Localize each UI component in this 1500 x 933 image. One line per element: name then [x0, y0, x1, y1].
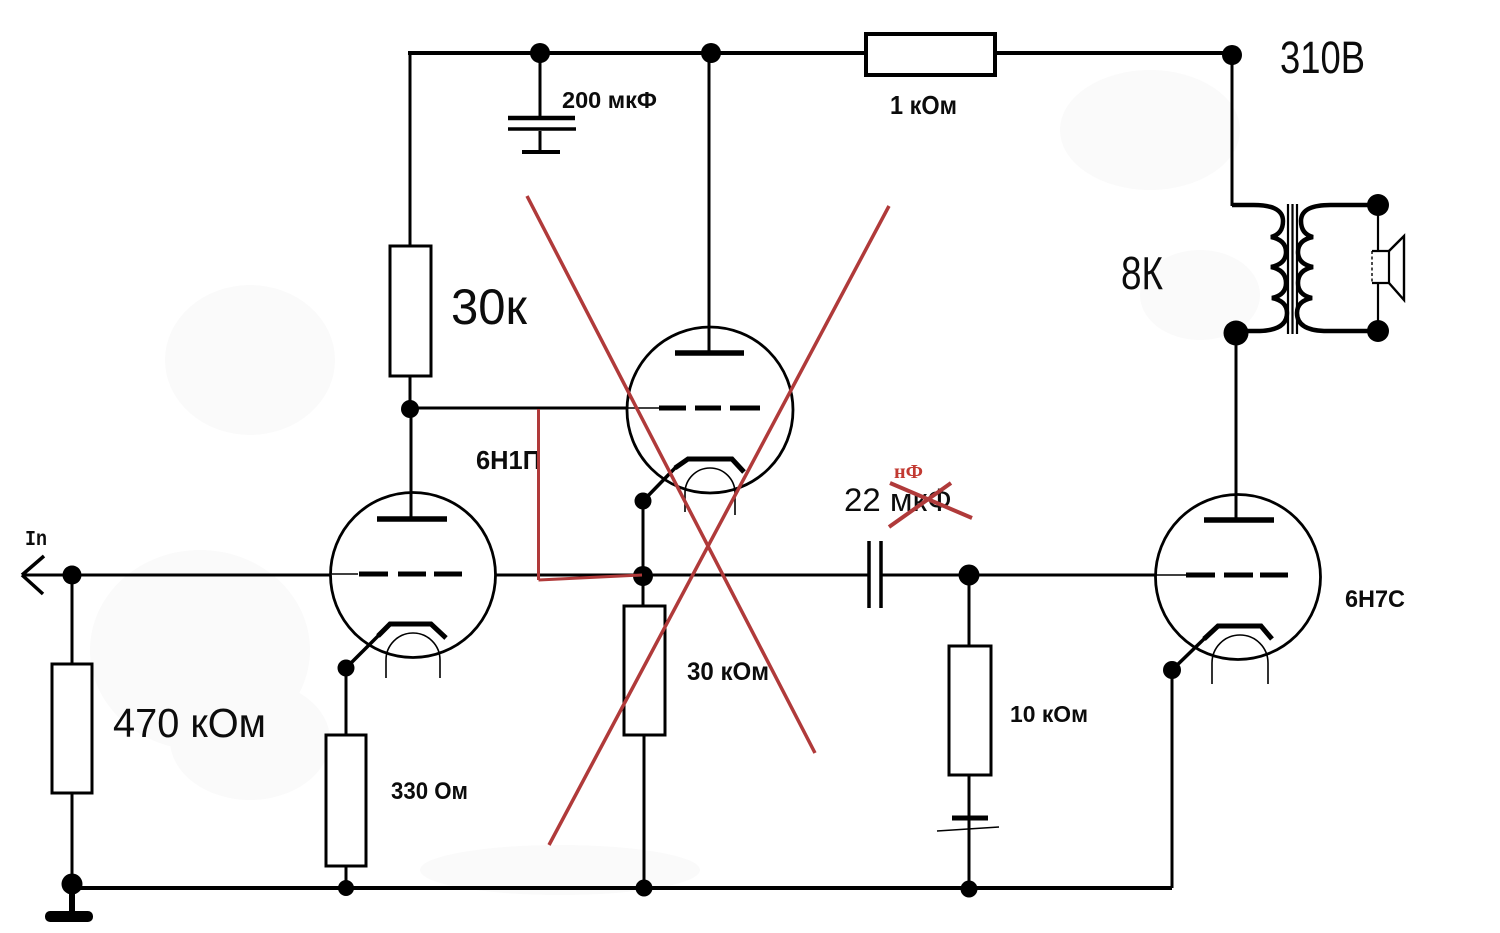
- wire left drop from top rail to 30k: [409, 51, 412, 246]
- cathode V3: [1204, 626, 1272, 639]
- wire speaker bottom lead: [1377, 283, 1379, 331]
- transformer T1 secondary winding: [1297, 205, 1378, 331]
- heater V1: [386, 633, 440, 678]
- wire V2 cathode node down through grid bus: [642, 501, 645, 606]
- wire V3 cathode diagonal: [1172, 638, 1205, 670]
- wire In arrow: [22, 556, 331, 594]
- wire top rail right segment: [995, 51, 1233, 55]
- capacitor C2 coupling plates: [869, 541, 881, 608]
- red cross line 1: [527, 196, 815, 753]
- node junction V3 cathode: [1163, 661, 1181, 679]
- grid V2 dashed: [628, 407, 760, 409]
- svg-text:6Н1П: 6Н1П: [476, 445, 541, 475]
- svg-text:In: In: [25, 529, 47, 552]
- resistor R3 470 kOhm: [52, 664, 92, 793]
- node junction grid bus / cathode: [633, 566, 653, 586]
- svg-text:200 мкФ: 200 мкФ: [562, 87, 657, 113]
- svg-text:8К: 8К: [1121, 247, 1163, 299]
- svg-text:310В: 310В: [1280, 32, 1365, 83]
- resistor R6 10 kOhm: [949, 646, 991, 775]
- node junction input: [63, 566, 82, 585]
- wire V2 anode lead: [708, 53, 711, 353]
- wire R4 bottom to rail: [345, 866, 348, 888]
- svg-text:330 Ом: 330 Ом: [391, 778, 468, 805]
- wire input node down to R3: [71, 575, 74, 664]
- resistor R4 330 Ohm: [326, 735, 366, 866]
- svg-text:6Н7С: 6Н7С: [1345, 586, 1405, 613]
- wire speaker top lead: [1377, 205, 1379, 252]
- wire top rail left segment: [408, 51, 866, 55]
- grid V3 dashed: [1156, 574, 1288, 576]
- transformer T1 core: [1288, 204, 1297, 334]
- tube V2 center triode envelope: [627, 327, 793, 493]
- anode V2: [675, 350, 744, 356]
- watermark smudges: [90, 70, 1260, 895]
- node junction top rail right end: [1222, 45, 1242, 65]
- wire capacitor C1 lead: [539, 53, 542, 116]
- wire V1 cathode to node: [346, 635, 379, 668]
- svg-text:нФ: нФ: [894, 461, 923, 483]
- wire node to R4: [345, 668, 348, 735]
- svg-text:30 кОм: 30 кОм: [687, 658, 769, 686]
- node junction T1 secondary bottom: [1367, 320, 1389, 342]
- resistor R2 1 kOhm (plate load top): [866, 34, 995, 75]
- wire node to R6: [968, 575, 971, 646]
- svg-text:470 кОм: 470 кОм: [113, 700, 266, 746]
- capacitor C1 200uF plates: [508, 118, 576, 152]
- transformer T1 primary winding: [1232, 205, 1287, 331]
- wire node to center tube grid: [410, 407, 628, 410]
- red annotation vertical line at 6Н1П: [537, 409, 540, 580]
- node junction T1 primary bottom: [1224, 321, 1249, 346]
- svg-text:10 кОм: 10 кОм: [1010, 701, 1088, 727]
- node junction V2 cathode: [635, 493, 652, 510]
- correction cross over мкФ: [889, 483, 972, 527]
- wire R5 bottom to rail: [643, 735, 646, 888]
- wire R6 bottom: [968, 775, 971, 888]
- node junction rail at 330 Ом: [338, 880, 354, 896]
- node junction T1 secondary top: [1367, 194, 1389, 216]
- node junction top rail at capacitor: [530, 43, 550, 63]
- heater V2: [685, 468, 735, 515]
- ground symbol: [45, 884, 93, 922]
- node junction rail at 30 кОм: [636, 880, 653, 897]
- anode V3: [1204, 517, 1274, 523]
- anode V1: [377, 516, 447, 522]
- node junction top rail at center tube anode: [701, 43, 721, 63]
- grid V1 dashed: [332, 573, 462, 575]
- red cross line 2: [549, 206, 889, 845]
- node junction 30k bottom: [401, 400, 419, 418]
- node junction at 10k: [959, 565, 980, 586]
- heater V3: [1212, 635, 1268, 684]
- speaker LS1: [1372, 236, 1404, 300]
- stray mark below R6: [937, 818, 999, 831]
- wire V3 anode lead: [1235, 333, 1238, 520]
- resistor R5 30 kOhm: [624, 606, 665, 735]
- ground rail bottom: [72, 886, 1172, 890]
- tube V1 6N1P left triode envelope: [331, 493, 496, 658]
- red annotation segment to cathode node: [539, 575, 643, 580]
- wire grid bus middle segment: [495, 574, 868, 577]
- cathode V1: [378, 624, 446, 638]
- wire grid bus right segment: [882, 574, 1156, 577]
- wire V3 cathode to rail: [1171, 670, 1174, 888]
- node junction ground rail left: [62, 874, 83, 895]
- resistor R1 30k vertical: [390, 246, 431, 376]
- cathode V2: [675, 459, 744, 472]
- wire R3 bottom to ground rail: [71, 793, 74, 884]
- node junction rail at 10 кОм: [961, 881, 978, 898]
- svg-text:30к: 30к: [451, 279, 528, 335]
- tube V3 6N7S right triode envelope: [1156, 495, 1321, 660]
- wire V2 cathode diagonal: [643, 467, 676, 501]
- wire right drop to transformer: [1231, 55, 1234, 206]
- node junction V1 cathode: [338, 660, 355, 677]
- svg-text:1 кОм: 1 кОм: [890, 90, 957, 120]
- wire left tube anode lead: [410, 409, 413, 519]
- wire 30k bottom to node: [409, 376, 412, 412]
